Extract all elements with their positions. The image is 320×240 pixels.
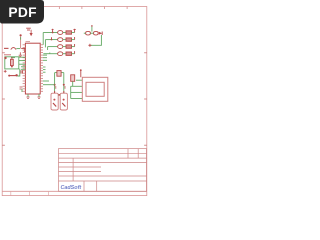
- LED ladder row 4: [43, 51, 74, 56]
- potentiometer R6: [71, 75, 75, 82]
- wire bottom loop: [90, 35, 101, 45]
- LED ladder row 1: [43, 29, 76, 45]
- supply plus symbol 2: [88, 44, 91, 47]
- node VCC stub: [91, 25, 93, 32]
- svg-text:CadSoft: CadSoft: [61, 185, 82, 191]
- svg-text:PDF: PDF: [8, 5, 37, 20]
- PDF badge: [0, 0, 44, 24]
- resistor R7: [86, 32, 91, 35]
- wire: [43, 84, 55, 86]
- power to LCD: [80, 69, 82, 77]
- IC U1 pins left: [23, 45, 26, 92]
- node XTAL1: [54, 84, 56, 86]
- capacitor-resistor loop left: [4, 57, 18, 69]
- capacitor C4: [21, 70, 22, 73]
- IC U1: [25, 42, 40, 94]
- wire: [16, 48, 20, 50]
- frame column ticks bottom: [11, 191, 49, 195]
- power VCC node top-left: [20, 34, 22, 48]
- inductor L1: [11, 48, 16, 50]
- label C1 value: [55, 86, 57, 89]
- buzzer SG1: [8, 74, 18, 76]
- wire: [17, 69, 19, 76]
- power arrow down: [30, 30, 33, 36]
- frame border: [2, 7, 147, 196]
- crystal Q1: [55, 71, 64, 94]
- diode D1: [99, 32, 102, 36]
- wire: [84, 32, 94, 34]
- resistor R8: [94, 32, 99, 35]
- ground symbol above loop: [19, 52, 22, 56]
- capacitor C1: [51, 91, 58, 110]
- LED ladder row 3: [48, 44, 75, 50]
- wire loop to IC: [19, 57, 26, 69]
- wire LCD bus: [71, 80, 83, 98]
- label pin6: [20, 87, 23, 89]
- ground under IC 2: [38, 94, 41, 99]
- capacitor C2: [60, 91, 67, 110]
- wire stub: [21, 89, 23, 92]
- frame column ticks top: [59, 7, 127, 10]
- resistor R5 top-left row: [4, 47, 9, 49]
- label C2 value: [64, 86, 66, 89]
- label text: [4, 54, 11, 56]
- wire reset net: [21, 48, 24, 52]
- LCD DS1: [82, 77, 108, 101]
- wire IC right stubs: [43, 55, 49, 81]
- node XTAL2: [63, 84, 65, 86]
- ground under IC: [27, 94, 30, 99]
- title block: [59, 149, 147, 192]
- supply plus symbol: [4, 70, 7, 73]
- LED ladder row 2: [45, 37, 74, 47]
- node between caps: [58, 94, 60, 96]
- frame row ticks: [2, 53, 147, 145]
- label text: [11, 57, 15, 59]
- ground symbol below badge: [26, 28, 31, 30]
- IC U1 pins right: [40, 45, 43, 92]
